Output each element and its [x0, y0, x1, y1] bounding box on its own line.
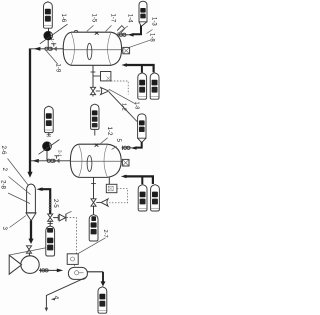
pump P2 (metering pump, half-filled circle)	[39, 140, 60, 155]
valve circles on R2 feed line	[47, 159, 54, 162]
wire: stub from X2 to check valve D2	[96, 202, 101, 204]
arrow right toward trap	[57, 269, 63, 273]
reactor R1 centerline	[64, 49, 122, 51]
wire: thick vent header right of R2	[124, 176, 153, 184]
label 1-9 below feed line with leader	[47, 51, 61, 73]
pump P3 inlet cone	[9, 255, 21, 274]
node: check valve D2 (pointing left)	[101, 199, 108, 206]
node: bottle B-M (gas cylinder right of R2)	[138, 114, 146, 143]
node: small box B5 with dark gauge	[47, 245, 54, 254]
label 2-8 with leader	[0, 180, 30, 204]
node: condenser box U2 below R1	[101, 72, 111, 81]
arrow on feed line pointing left	[34, 47, 41, 51]
wire: branch pipe to box U4	[108, 177, 110, 184]
svg-text:1-6: 1-6	[60, 14, 66, 23]
wire: column side reflux elbow (thick, hatched)	[36, 187, 52, 214]
svg-text:2-7: 2-7	[102, 230, 108, 238]
arrow down into column	[27, 172, 32, 178]
valve circles on R1 feed line	[45, 47, 52, 50]
wire: horizontal feed line into main pipe corner	[29, 48, 64, 50]
node: bottle B6 (receiver below R2)	[89, 215, 98, 241]
label 2-6 with leader	[0, 146, 29, 186]
R1 right feed line with flange and valve circles	[117, 34, 128, 36]
node: bottle B3a (absorber cylinder)	[138, 73, 147, 99]
node: bottle B7b (absorber cylinder)	[151, 185, 160, 211]
svg-text:1-2: 1-2	[121, 103, 127, 111]
label 1-5 above R1 with leader	[87, 14, 97, 32]
wire: branch to condenser box	[93, 75, 101, 77]
label 1-3 at right edge with leader	[147, 17, 157, 34]
nozzle X fitting on R2 top	[95, 144, 99, 147]
bowtie valve on R1 feed line	[51, 47, 56, 51]
wire: thick elbow from bottle B-M to R2 feed	[136, 142, 141, 148]
wire: leader from D1 to label (shallow diagonal)	[109, 89, 136, 104]
svg-text:2-8: 2-8	[0, 180, 7, 190]
svg-text:2-6: 2-6	[0, 146, 7, 156]
nozzle bump on R1 top left	[74, 31, 78, 33]
valve V4 (vertical bowtie) under elbow	[48, 214, 53, 221]
wire: R2 bottom drain pipe to bottle B6	[93, 177, 95, 198]
valve X1 on R1 drain (vertical bowtie)	[90, 87, 95, 94]
svg-text:1-2: 1-2	[106, 127, 113, 137]
wire: stub from V4 to check valve D3	[53, 217, 58, 219]
node: rupture-disc box U1 right of R1	[122, 47, 130, 53]
wire: drain pipe from D1 to bottle M (steep diagonal)	[109, 92, 137, 122]
reducer fitting on R1 right head	[117, 26, 124, 34]
arrow down at column bottom line	[28, 239, 33, 244]
node: analyzer box B6	[67, 254, 78, 265]
wire: vent diagonal from oval down-left	[46, 278, 85, 310]
wire: oval to right then down into bottle B5b	[87, 271, 103, 273]
sample stub with flange above feed valve	[53, 43, 55, 46]
node: bottle B3b (absorber cylinder)	[150, 73, 159, 99]
node: bottle B5b (receiver cylinder bottom right)	[98, 287, 107, 313]
svg-text:1-7: 1-7	[110, 14, 116, 23]
wire: stub from X1 to check valve D1	[96, 90, 100, 92]
wire: leader from cone to small box B5	[10, 248, 47, 255]
reactor R2 centerline	[71, 160, 121, 162]
wire: dashed control loop U4 to D2	[108, 189, 127, 203]
node: reactor R2 (horizontal autoclave)	[70, 144, 121, 177]
svg-text:2-5: 2-5	[52, 199, 58, 208]
svg-text:1-7: 1-7	[50, 38, 55, 45]
arrow pointing left into main pipe (vessel2 feed line)	[32, 159, 39, 163]
svg-text:1-9: 1-9	[55, 64, 61, 73]
wire: column bottom thick line	[30, 221, 32, 240]
node: distillation column 2	[26, 184, 36, 221]
valve circles on outlet	[42, 269, 49, 272]
svg-text:1-3: 1-3	[151, 17, 157, 26]
reactor R1 internal thermowell ellipse	[87, 43, 92, 59]
svg-text:4: 4	[53, 296, 60, 300]
label 5 with leader to R2	[112, 139, 122, 150]
svg-text:2-1: 2-1	[58, 150, 63, 157]
label 1-2 with leader to R2	[99, 127, 113, 146]
wire: leader from box U1 to label 1-8	[130, 40, 150, 47]
node: reactor R1 (horizontal autoclave)	[63, 32, 121, 65]
valve X2 on R2 drain	[91, 199, 96, 206]
label 3 with leader	[1, 216, 26, 231]
wire: dashed signal from D3 to analyzer box B6	[66, 218, 76, 268]
node: bottle B-M2 (small cylinder above R2)	[91, 104, 99, 135]
svg-text:1-4: 1-4	[127, 14, 133, 23]
node: check valve D3	[59, 211, 71, 221]
label 4 with small arrow	[51, 296, 60, 301]
wire: pump P2 discharge down to R2 feed line	[46, 151, 48, 161]
node: bottle B4 (collection cylinder below valve V4)	[46, 226, 55, 256]
node: bottle B7a (absorber cylinder)	[138, 185, 147, 211]
node: box U4 (controller below R2)	[106, 184, 117, 192]
svg-text:1-8: 1-8	[149, 33, 155, 42]
wire: dashed signal from box U2	[111, 81, 128, 95]
svg-text:1-5: 1-5	[91, 14, 97, 23]
wire: R2 feed line	[31, 160, 71, 162]
bowtie valve on R2 feed line	[54, 159, 59, 163]
valve V3 (vertical bowtie) above pump P3	[26, 246, 31, 253]
wire: R1 bottom drain pipe	[92, 66, 94, 88]
wire: pump P1 discharge down to feed line	[47, 40, 49, 49]
svg-text:5: 5	[115, 139, 122, 143]
R2 right feed line with flange and valve circles	[122, 147, 132, 149]
label 1-4 with leader to R1 right feed	[118, 14, 133, 34]
svg-text:2: 2	[1, 168, 8, 172]
sample stub with flange above R2 feed valve	[56, 155, 58, 158]
wire: main transfer pipe from reactor R1 to column (thick)	[29, 49, 31, 173]
node: bottle B-L2 (feed cylinder, middle left)	[44, 106, 53, 132]
reactor R2 internal thermowell ellipse	[87, 156, 92, 172]
svg-text:1-8: 1-8	[134, 102, 140, 110]
node: check valve D1	[101, 87, 109, 94]
wire: thick elbow from bottle B2 to R1 feed	[134, 26, 142, 35]
pump P1 (metering pump, half-filled circle)	[40, 24, 68, 44]
node: bottle B1 (feed cylinder top left)	[44, 2, 53, 28]
nozzle X fitting on R1 top	[95, 32, 99, 35]
wire: thick vent header right of R1	[125, 65, 154, 72]
wire: pump P3 outlet line	[39, 269, 58, 271]
wire: leader from box B6 to label 6	[78, 238, 105, 254]
node: rupture-disc box U3 right of R2	[121, 159, 129, 166]
svg-text:3: 3	[1, 227, 8, 231]
node: trap/separator oval	[68, 267, 87, 279]
label 2 with leader	[1, 168, 31, 195]
pump P3 circle	[21, 256, 39, 274]
label 1-7b above R1 with leader	[106, 14, 116, 32]
flange on outlet	[40, 268, 42, 272]
node: bottle B2 (gas cylinder top right)	[139, 1, 147, 26]
